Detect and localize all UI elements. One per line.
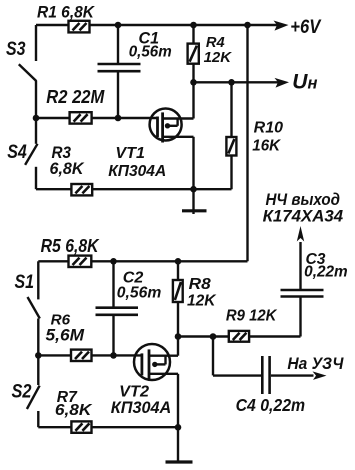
svg-text:КП304А: КП304А — [108, 163, 166, 180]
svg-text:S2: S2 — [12, 380, 32, 402]
svg-text:R1 6,8K: R1 6,8K — [37, 2, 96, 21]
svg-text:6,8K: 6,8K — [55, 402, 93, 419]
svg-text:12K: 12K — [204, 49, 233, 66]
svg-text:S1: S1 — [15, 271, 35, 293]
svg-text:R2 22M: R2 22M — [46, 87, 105, 107]
svg-text:0,22m: 0,22m — [304, 263, 348, 280]
svg-text:КП304А: КП304А — [111, 398, 172, 417]
svg-text:12K: 12K — [187, 293, 217, 310]
svg-text:VT1: VT1 — [115, 145, 145, 162]
svg-text:На УЗЧ: На УЗЧ — [287, 354, 344, 373]
svg-text:S3: S3 — [6, 38, 26, 60]
svg-text:+6V: +6V — [290, 16, 322, 38]
svg-text:Uн: Uн — [292, 71, 317, 94]
svg-text:К174ХА34: К174ХА34 — [263, 208, 344, 226]
svg-text:R10: R10 — [254, 119, 284, 136]
svg-text:5,6M: 5,6M — [46, 327, 86, 345]
svg-text:НЧ выход: НЧ выход — [266, 190, 341, 209]
svg-text:6,8K: 6,8K — [50, 160, 85, 178]
svg-text:0,56m: 0,56m — [129, 43, 172, 60]
svg-text:S4: S4 — [7, 141, 27, 163]
svg-text:0,56m: 0,56m — [117, 285, 162, 302]
svg-text:R8: R8 — [189, 276, 211, 293]
svg-text:C4 0,22m: C4 0,22m — [236, 395, 306, 415]
svg-text:R5 6,8K: R5 6,8K — [41, 236, 101, 256]
svg-text:16K: 16K — [252, 138, 281, 155]
svg-text:R9 12K: R9 12K — [226, 308, 278, 325]
